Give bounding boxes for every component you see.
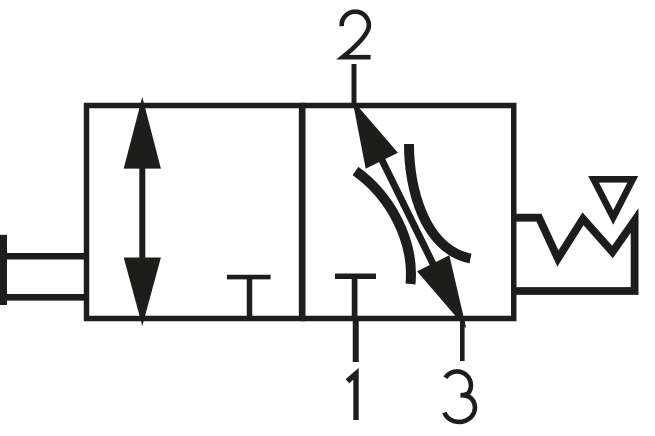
blocked port T left square crossbar <box>227 275 271 280</box>
throttle left arc <box>356 171 411 284</box>
diagonal arrow bottom head <box>417 255 466 328</box>
blocked port T right square crossbar <box>335 273 376 279</box>
double arrow top head <box>124 97 161 169</box>
port 2 line <box>352 64 357 105</box>
exhaust triangle <box>594 179 633 217</box>
plunger top link <box>0 253 86 260</box>
double arrow shaft left square <box>139 166 145 260</box>
valve body left square <box>87 106 303 319</box>
diagonal arrow top head <box>352 100 398 169</box>
valve body right square <box>303 106 514 319</box>
blocked port T left square stem <box>247 277 253 319</box>
label 2 <box>342 12 371 58</box>
throttle right arc <box>409 144 471 259</box>
label 3 <box>444 371 475 421</box>
spring zigzag <box>514 218 635 291</box>
blocked port T right square stem <box>352 276 358 319</box>
port 1 line <box>353 318 359 362</box>
plunger bottom link <box>0 294 86 301</box>
port 3 line <box>460 318 465 361</box>
plunger bar <box>0 235 7 305</box>
double arrow bottom head <box>124 258 161 327</box>
divider between squares <box>299 106 305 319</box>
diagonal arrow shaft <box>378 152 438 274</box>
label 1 <box>347 374 356 420</box>
